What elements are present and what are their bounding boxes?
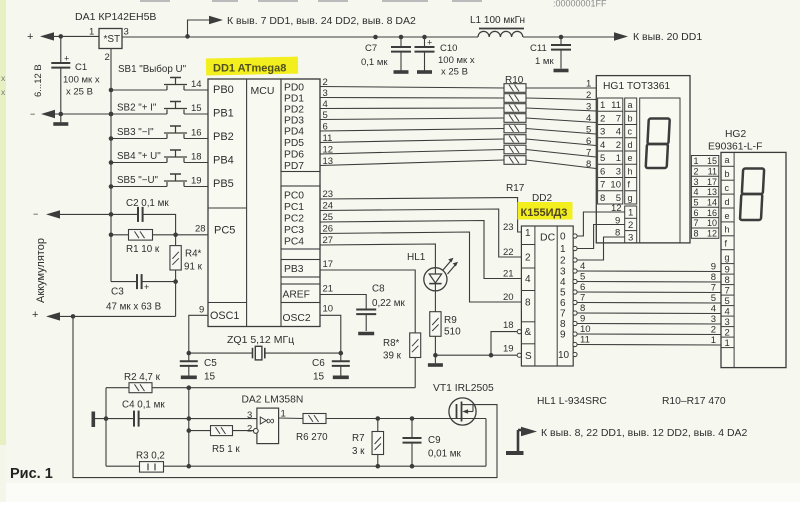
capacitor C1 plates <box>51 63 70 68</box>
wire R9 to ground node <box>434 336 436 355</box>
capacitor C3 <box>137 274 142 289</box>
wire R12 to HG1 pin 3 <box>526 108 596 111</box>
resistor R11 <box>504 94 526 103</box>
svg-text:8: 8 <box>586 159 591 170</box>
wire C10 lower stem <box>424 52 426 71</box>
wire mid vertical <box>188 388 190 467</box>
wire DD2 out4 to HG2 <box>577 281 721 284</box>
svg-text:4: 4 <box>694 187 699 197</box>
wire DD2 out9 to HG2 <box>577 333 721 336</box>
svg-text:R2 4,7 к: R2 4,7 к <box>124 372 161 383</box>
resistor R1 <box>129 230 153 241</box>
wire DD2 out6 to HG2 <box>577 302 721 305</box>
svg-text:SB2 "+ I": SB2 "+ I" <box>117 103 157 114</box>
svg-text:2: 2 <box>105 52 110 63</box>
svg-text:23: 23 <box>503 222 514 233</box>
svg-text:15: 15 <box>204 372 216 383</box>
svg-text:PD5: PD5 <box>284 138 304 149</box>
svg-text:PB0: PB0 <box>213 84 234 96</box>
svg-text:2: 2 <box>525 253 531 264</box>
wire SB common vertical <box>110 49 112 282</box>
svg-text:14: 14 <box>707 198 717 208</box>
svg-text:C6: C6 <box>312 358 325 369</box>
svg-text:20: 20 <box>503 292 514 303</box>
svg-text:15: 15 <box>313 372 325 383</box>
wire OSC1 to crystal <box>189 315 208 353</box>
svg-text:9: 9 <box>199 305 204 316</box>
svg-text:17: 17 <box>323 259 334 270</box>
wire C4 to DA2 pin3 <box>139 418 257 420</box>
wire C9 top <box>411 419 413 439</box>
svg-text:4: 4 <box>586 113 591 124</box>
scan page left edge strip <box>0 0 6 445</box>
svg-text:MCU: MCU <box>251 85 275 97</box>
svg-text:4: 4 <box>580 261 585 272</box>
svg-text:11: 11 <box>708 166 717 176</box>
junction <box>59 34 64 39</box>
svg-text:10: 10 <box>558 350 570 361</box>
svg-text:5: 5 <box>560 288 566 299</box>
svg-text:R3 0,2: R3 0,2 <box>136 451 165 462</box>
svg-text:100 мк х: 100 мк х <box>438 55 475 66</box>
wire C6 lower <box>340 366 342 376</box>
svg-text:h: h <box>725 225 730 235</box>
svg-text:4: 4 <box>600 140 605 151</box>
wire AREF to C8 <box>320 295 366 310</box>
junction <box>489 353 494 358</box>
svg-text:1: 1 <box>711 335 716 346</box>
wire PD4 to R14 <box>320 129 504 132</box>
HG1 seven segment digit <box>646 119 670 169</box>
wire HL1 to R9 <box>434 291 436 312</box>
svg-text:12: 12 <box>707 229 717 239</box>
wire R4 to + rail <box>175 270 177 316</box>
wire PD6 to R16 <box>320 150 504 155</box>
svg-text:C10: C10 <box>440 43 457 54</box>
wire - to C2 <box>60 213 138 215</box>
wire C1 bottom <box>60 68 62 114</box>
DD2 output pin circle <box>573 321 577 325</box>
svg-text:a: a <box>628 100 633 110</box>
node arrow to pin 7 DD1 <box>209 16 223 24</box>
svg-text:7: 7 <box>586 148 591 159</box>
svg-text:22: 22 <box>503 247 514 258</box>
svg-text:1: 1 <box>725 338 730 349</box>
wire C7 lower stem <box>400 52 402 71</box>
svg-text:C1: C1 <box>75 62 87 73</box>
wire DD2 out3 to HG2 <box>577 270 721 273</box>
node arrow battery plus input <box>40 32 54 40</box>
svg-text:19: 19 <box>503 344 514 355</box>
wire to R4 <box>175 235 177 246</box>
svg-text:PD0: PD0 <box>284 83 304 94</box>
svg-text:21: 21 <box>503 269 514 280</box>
DD2 output pin circle <box>573 290 577 294</box>
svg-text:9: 9 <box>615 216 620 227</box>
svg-text:PD4: PD4 <box>284 127 304 138</box>
svg-text:*ST: *ST <box>104 34 121 45</box>
svg-text:6: 6 <box>560 298 566 309</box>
svg-text:0,22 мк: 0,22 мк <box>372 298 406 309</box>
svg-text:PD2: PD2 <box>284 105 304 116</box>
svg-text:DA2 LM358N: DA2 LM358N <box>242 395 304 406</box>
svg-text:47 мк х 63 В: 47 мк х 63 В <box>106 302 162 313</box>
DD2 output pin circle <box>573 342 577 346</box>
svg-text:6: 6 <box>580 282 585 293</box>
junction <box>376 464 381 469</box>
wire VT1 source down <box>485 419 487 467</box>
svg-text:b: b <box>725 169 730 179</box>
ground <box>428 363 443 367</box>
DD2 output pin circle <box>573 279 577 283</box>
svg-text:7: 7 <box>694 218 699 228</box>
svg-text:18: 18 <box>191 152 202 163</box>
svg-text:5: 5 <box>711 293 716 304</box>
svg-text:2: 2 <box>711 325 716 336</box>
svg-text:8: 8 <box>600 193 605 204</box>
svg-text:b: b <box>628 113 633 123</box>
svg-text:∞: ∞ <box>266 414 275 428</box>
wire DD2 out0 to HG1 pin12 <box>577 212 625 236</box>
wire R17 to HG1 pin 8 <box>526 160 596 169</box>
DD2 output pin circle <box>573 258 577 262</box>
DD2 output pin circle <box>573 352 577 356</box>
node arrow accumulator minus <box>46 210 60 218</box>
svg-text:8: 8 <box>694 229 699 239</box>
svg-text:2: 2 <box>628 220 633 231</box>
svg-text:2: 2 <box>616 140 621 151</box>
ground <box>53 122 68 126</box>
svg-text:510: 510 <box>444 327 461 338</box>
svg-text:R1 10 к: R1 10 к <box>126 244 160 255</box>
svg-text:0: 0 <box>560 232 566 243</box>
junction <box>410 464 415 469</box>
svg-text:8: 8 <box>580 303 585 314</box>
svg-text:6: 6 <box>694 208 699 218</box>
wire R8 to R2 row <box>414 358 416 388</box>
svg-text:PC0: PC0 <box>284 191 304 202</box>
svg-text:15: 15 <box>191 103 202 114</box>
svg-text:PC4: PC4 <box>284 237 304 248</box>
wire R16 to HG1 pin 7 <box>526 150 596 158</box>
ground <box>181 375 197 379</box>
svg-text:−: − <box>30 109 35 119</box>
wire C8 stem <box>365 314 367 331</box>
wire PD2 to R12 <box>320 107 504 110</box>
capacitor C5 plates <box>180 361 198 366</box>
wire C2 to R4 node <box>143 214 176 233</box>
pushbutton SB2 <box>111 102 208 115</box>
wire PC2 to DD2 pin21 <box>320 221 521 279</box>
svg-text:12: 12 <box>611 203 622 214</box>
svg-text:DD1 ATmega8: DD1 ATmega8 <box>213 63 286 75</box>
wire PD3 to R13 <box>320 118 504 120</box>
ground <box>554 69 569 73</box>
junction <box>59 112 64 117</box>
wire PC0 to DD2 pin23 <box>320 198 521 233</box>
junction <box>71 314 76 319</box>
svg-text:C7: C7 <box>365 43 377 54</box>
junction <box>109 160 114 165</box>
svg-text:SB1 "Выбор U": SB1 "Выбор U" <box>118 64 187 75</box>
svg-text:7: 7 <box>725 285 730 296</box>
wire + rail bottom <box>60 315 176 317</box>
capacitor C4 <box>134 411 139 427</box>
svg-text:11: 11 <box>580 335 590 346</box>
capacitor C6 plates <box>332 361 350 366</box>
svg-text:+: + <box>427 38 432 48</box>
ground <box>417 70 432 74</box>
voltage regulator DA1 <box>99 29 122 49</box>
svg-text:0,1 мк: 0,1 мк <box>361 57 388 68</box>
wire DD2 out1 to HG1 pin9 <box>577 225 625 249</box>
svg-text:7: 7 <box>711 283 716 294</box>
ground left of C4 <box>92 412 96 428</box>
wire R14 to HG1 pin 5 <box>526 129 596 135</box>
resistor R7 <box>372 432 384 455</box>
svg-text:PC3: PC3 <box>284 225 304 236</box>
svg-text:R4*: R4* <box>185 249 202 260</box>
svg-text:g: g <box>725 253 730 263</box>
svg-text:PB4: PB4 <box>213 155 234 167</box>
svg-text:1: 1 <box>600 100 605 111</box>
svg-text:3: 3 <box>247 410 252 421</box>
svg-text:5: 5 <box>586 125 591 136</box>
arrow to pin 20 DD1 <box>614 32 628 40</box>
resistor R5 <box>211 426 233 436</box>
DD2 output pin circle <box>573 332 577 336</box>
svg-text:16: 16 <box>707 208 717 218</box>
svg-text:2: 2 <box>560 256 566 267</box>
display HG1 TOT3361 <box>596 76 690 243</box>
wire C5 lower <box>188 366 190 376</box>
HG2 pin pair cells <box>691 156 718 239</box>
ground <box>394 70 409 74</box>
resistor R4 <box>170 246 181 270</box>
svg-text:100 мк х: 100 мк х <box>63 75 100 86</box>
svg-text:4: 4 <box>525 274 531 285</box>
resistor R9 <box>430 312 441 337</box>
svg-text:OSC1: OSC1 <box>210 310 239 322</box>
svg-text:DC: DC <box>540 232 556 244</box>
svg-text:SB5 "−U": SB5 "−U" <box>117 175 159 186</box>
svg-text:PC2: PC2 <box>284 214 304 225</box>
svg-text:c: c <box>725 183 730 193</box>
svg-text:−: − <box>33 209 38 219</box>
svg-text:AREF: AREF <box>283 290 310 301</box>
resistor R6 <box>303 414 326 424</box>
ground <box>333 375 349 379</box>
svg-text:К выв. 8, 22 DD1, выв. 12 DD2,: К выв. 8, 22 DD1, выв. 12 DD2, выв. 4 DA… <box>541 427 748 439</box>
wire to ground <box>434 355 436 363</box>
svg-text:10: 10 <box>323 304 334 315</box>
svg-text:C4 0,1 мк: C4 0,1 мк <box>122 400 165 411</box>
svg-text:+: + <box>32 309 38 321</box>
svg-text:C3: C3 <box>111 287 124 298</box>
resistor R16 <box>504 145 526 154</box>
wire + input rail <box>54 35 99 37</box>
svg-text:d: d <box>725 197 730 207</box>
svg-text:C8: C8 <box>372 284 385 295</box>
wire DD2 out8 to HG2 <box>577 323 721 326</box>
svg-text:d: d <box>628 140 633 150</box>
svg-text:3: 3 <box>694 177 699 187</box>
wire - rail <box>55 113 111 115</box>
op-amp DA2 <box>253 408 278 444</box>
svg-text:1: 1 <box>616 153 621 164</box>
svg-text:К выв. 20 DD1: К выв. 20 DD1 <box>633 31 702 43</box>
junction <box>109 112 114 117</box>
DD2 output pin circle <box>573 234 577 238</box>
svg-text:1 мк: 1 мк <box>535 56 554 67</box>
junction <box>187 416 192 421</box>
wire PC3 to DD2 pin20 <box>320 232 521 302</box>
DD2 pin19 inverted input <box>517 353 521 357</box>
wire PC1 to DD2 pin22 <box>320 209 521 257</box>
wire DD2 out7 to HG2 <box>577 312 721 315</box>
svg-text:18: 18 <box>503 320 514 331</box>
svg-text:39 к: 39 к <box>383 351 402 362</box>
svg-text:R6 270: R6 270 <box>296 432 328 443</box>
resistor R15 <box>504 135 526 144</box>
svg-text:7: 7 <box>600 180 605 191</box>
svg-text:e: e <box>725 211 730 221</box>
wire R5 to DA2 pin2 <box>233 430 254 432</box>
capacitor C7 plates <box>391 47 411 52</box>
svg-text:PC1: PC1 <box>284 202 304 213</box>
svg-text:7: 7 <box>560 309 566 320</box>
wire OSC2 to crystal <box>320 315 341 353</box>
svg-text:91 к: 91 к <box>184 262 203 273</box>
junction <box>185 34 190 39</box>
junction <box>109 112 114 117</box>
node arrow accumulator plus <box>46 312 60 320</box>
svg-text:+: + <box>27 31 33 43</box>
svg-text:SB3 "−I": SB3 "−I" <box>117 127 154 138</box>
svg-text:10: 10 <box>707 218 717 228</box>
wire DA2 out to R6 <box>279 417 303 420</box>
svg-text:0,01 мк: 0,01 мк <box>428 449 462 460</box>
svg-text:e: e <box>628 153 633 163</box>
wire R11 to HG1 pin 2 <box>526 98 596 100</box>
junction <box>173 233 178 238</box>
junction <box>109 212 114 217</box>
junction <box>376 416 381 421</box>
svg-text:Рис. 1: Рис. 1 <box>10 466 53 482</box>
junction <box>173 279 178 284</box>
svg-text:К155ИД3: К155ИД3 <box>521 207 568 219</box>
transistor VT1 IRL2505 <box>449 398 476 425</box>
junction <box>109 184 114 189</box>
wire DD2 out10 to HG2 <box>577 344 721 347</box>
svg-text:1: 1 <box>525 228 531 239</box>
svg-text:3: 3 <box>725 317 730 328</box>
label K155ID3 highlighted <box>518 202 573 220</box>
wire PD7 to R17 <box>320 160 504 166</box>
wire to DD2 pin18 <box>491 332 518 356</box>
svg-text:S: S <box>525 351 532 362</box>
svg-text:PD1: PD1 <box>284 94 304 105</box>
svg-text:7: 7 <box>580 293 585 304</box>
pushbutton SB5 <box>111 174 208 187</box>
svg-text:5: 5 <box>580 272 585 283</box>
HG2 seven segment digit <box>740 169 764 221</box>
wire C7 stem <box>400 37 402 47</box>
svg-text:R9: R9 <box>444 315 457 326</box>
svg-text:21: 21 <box>323 284 334 295</box>
wire R1 row / PC5 <box>111 234 208 236</box>
svg-text:C9: C9 <box>428 435 441 446</box>
resistor R8 <box>410 333 421 358</box>
LED HL1 <box>424 258 458 291</box>
wire C11 stem <box>560 37 562 45</box>
wire R6 to VT1 gate <box>326 418 486 420</box>
wire C9 bottom <box>411 443 413 467</box>
top cut-off text fragments <box>140 0 482 2</box>
junction <box>410 416 415 421</box>
svg-text:HL1 L-934SRC: HL1 L-934SRC <box>537 396 607 407</box>
svg-text:1: 1 <box>586 79 591 90</box>
wire rail after L1 <box>523 36 614 38</box>
svg-text:3: 3 <box>600 127 605 138</box>
svg-text:19: 19 <box>191 176 202 187</box>
svg-text:9: 9 <box>725 264 730 275</box>
svg-text:c: c <box>628 127 633 137</box>
svg-text:3: 3 <box>711 314 716 325</box>
svg-text:8: 8 <box>711 272 716 283</box>
wire C10 stem <box>424 37 426 47</box>
capacitor C10 plates <box>415 47 435 52</box>
svg-text:HL1: HL1 <box>407 252 426 263</box>
svg-text:10: 10 <box>610 180 621 191</box>
svg-text:C11: C11 <box>530 43 547 54</box>
wire C11 lower stem <box>560 50 562 69</box>
svg-text:R10–R17 470: R10–R17 470 <box>662 396 726 407</box>
svg-text:7: 7 <box>616 113 621 124</box>
label DD1 ATmega8 highlighted <box>206 57 298 76</box>
DD2 output pin circle <box>573 300 577 304</box>
wire R2 left <box>106 387 129 389</box>
svg-text:16: 16 <box>191 128 202 139</box>
junction <box>339 351 344 356</box>
svg-text:R7: R7 <box>352 433 365 444</box>
svg-text:9: 9 <box>711 262 716 273</box>
svg-text:h: h <box>628 166 633 176</box>
svg-text:10: 10 <box>580 324 591 335</box>
svg-text:11: 11 <box>611 100 621 111</box>
resistor R17 <box>504 156 526 165</box>
svg-text:PB1: PB1 <box>213 108 234 120</box>
svg-text:1: 1 <box>694 156 699 166</box>
svg-text::00000001FF: :00000001FF <box>553 0 607 9</box>
svg-text:28: 28 <box>195 224 206 235</box>
wire outer loop <box>73 316 497 477</box>
IC DD1 ATmega8 box <box>208 79 320 327</box>
svg-text:2: 2 <box>600 113 605 124</box>
junction <box>187 428 192 433</box>
junction <box>109 88 114 93</box>
ground flag to K vyv 8,22 <box>506 427 537 455</box>
svg-text:DA1 КР142ЕН5В: DA1 КР142ЕН5В <box>75 11 156 23</box>
svg-text:2: 2 <box>694 166 699 176</box>
junction <box>109 136 114 141</box>
wire R15 to HG1 pin 6 <box>526 139 596 146</box>
svg-text:ZQ1 5,12 МГц: ZQ1 5,12 МГц <box>227 334 294 346</box>
svg-text:SB4 "+ U": SB4 "+ U" <box>117 151 161 162</box>
svg-text:8: 8 <box>525 298 531 309</box>
wire C1 top <box>60 36 62 63</box>
svg-text:PD6: PD6 <box>284 150 304 161</box>
